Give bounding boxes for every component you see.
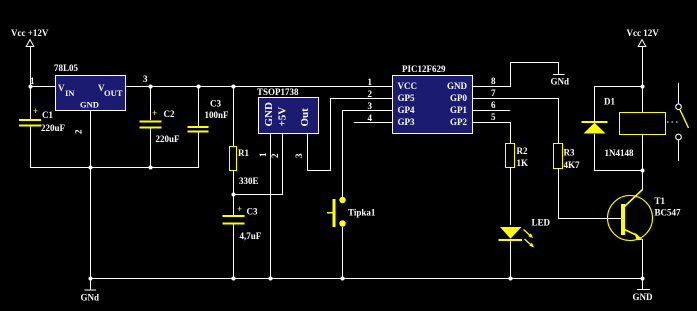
wire C2 top lead (150, 86, 151, 120)
svg-text:2: 2 (270, 153, 280, 158)
svg-text:4K7: 4K7 (564, 160, 581, 170)
capacitor C1 220uF (19, 106, 66, 133)
resistor R3 4K7 (554, 144, 581, 171)
wire relay bottom lead (642, 134, 643, 170)
svg-text:C3: C3 (247, 207, 258, 217)
svg-text:C3: C3 (210, 99, 221, 109)
power flag Vcc 12V (627, 28, 660, 47)
svg-text:VCC: VCC (398, 81, 418, 91)
svg-text:TSOP1738: TSOP1738 (257, 87, 299, 97)
wire pin8 to gnd a (472, 86, 510, 87)
svg-text:IN: IN (65, 88, 75, 98)
svg-text:+: + (33, 106, 38, 116)
svg-text:R1: R1 (238, 148, 249, 158)
wire pin5 (GP2) (472, 122, 510, 123)
relay contact (upper stub) (678, 83, 679, 104)
svg-text:BC547: BC547 (655, 208, 682, 218)
wire TSOP GND pin down to bottom rail (270, 134, 271, 278)
wire pin7 (GP0) (472, 98, 559, 99)
wire collector lead (642, 170, 643, 190)
wire D1 bottom lead (594, 134, 595, 170)
power flag Vcc +12V (11, 28, 49, 47)
junction GND pin x sub-rail (89, 166, 93, 170)
wire button top lead (342, 110, 343, 197)
svg-text:C1: C1 (42, 110, 53, 120)
wire emitter lead (642, 239, 643, 278)
wire Out horizontal (307, 170, 331, 171)
wire pin6 stub (GP1) (472, 110, 510, 111)
junction rail x GND pin (89, 277, 93, 281)
junction rail x TSOP GND (269, 277, 273, 281)
capacitor C3 4.7uF (223, 204, 262, 241)
junction rail x emitter (641, 277, 645, 281)
diode D1 1N4148 (582, 97, 634, 159)
relay contact lower circle (676, 134, 682, 140)
relay K1 coil (620, 113, 666, 135)
svg-text:1N4148: 1N4148 (605, 148, 634, 158)
svg-text:4,7uF: 4,7uF (240, 231, 262, 241)
ground GNd (top middle) (551, 74, 570, 87)
wire R1 top lead (233, 86, 234, 146)
svg-text:3: 3 (368, 101, 373, 111)
svg-text:3: 3 (143, 74, 148, 84)
wire R1 bottom lead (233, 170, 234, 215)
wire LED bottom lead (510, 241, 511, 278)
svg-text:+5V: +5V (277, 107, 289, 127)
svg-text:6: 6 (491, 100, 496, 110)
node 1 junction (29, 85, 33, 89)
LED D LED (499, 218, 551, 248)
microcontroller U PIC12F629 (393, 64, 473, 134)
wire D1 bottom horizontal (594, 170, 642, 171)
wire GP5 (pin2) (330, 98, 392, 99)
junction C2 bottom (149, 166, 153, 170)
junction C3 100nF top (197, 85, 201, 89)
svg-text:GNd: GNd (551, 77, 570, 87)
wire R2 bottom lead to LED (510, 167, 511, 225)
resistor R1 330E (230, 147, 259, 187)
capacitor C2 220uF (140, 108, 181, 144)
wire 78L05 GND pin down to bottom rail (90, 110, 91, 290)
svg-text:1: 1 (368, 77, 373, 87)
bottom ground rail (90, 278, 643, 279)
svg-text:3: 3 (294, 153, 304, 158)
wire Vcc+12V stem (30, 47, 31, 87)
wire pin8 to gnd d (558, 62, 559, 74)
wire base wire to T1 (558, 218, 621, 219)
wire +5V branch to TSOP (233, 194, 283, 195)
svg-text:T1: T1 (655, 196, 666, 206)
ground GNd (bottom left) (81, 290, 100, 303)
junction relay/D1 bottom (641, 169, 645, 173)
wire TSOP Out pin lead (307, 134, 308, 170)
svg-text:C2: C2 (164, 109, 175, 119)
svg-text:Vcc +12V: Vcc +12V (11, 28, 49, 38)
wire R2 top lead (510, 122, 511, 143)
junction rail x LED (509, 277, 513, 281)
junction +5V node at R1 bottom (232, 193, 236, 197)
wire right gnd stub (642, 278, 643, 289)
wire Vcc12V stem down to relay (642, 47, 643, 112)
wire R3 top lead (558, 98, 559, 143)
junction rail x C3 4.7uF (232, 277, 236, 281)
wire C3 100nF bottom lead (198, 132, 199, 168)
svg-text:1: 1 (258, 152, 268, 157)
IR receiver U TSOP1738 (257, 87, 319, 134)
resistor R2 1K (506, 144, 529, 169)
wire node1 down to C1 (30, 86, 31, 119)
svg-text:OUT: OUT (104, 88, 123, 98)
svg-text:+: + (237, 204, 242, 214)
relay contact (lower stub) (678, 140, 679, 161)
wire GP4 (pin3) (342, 110, 392, 111)
junction Vcc12V node (641, 85, 645, 89)
svg-text:100nF: 100nF (205, 110, 230, 120)
svg-text:GP4: GP4 (398, 105, 415, 115)
wire +5V main rail (125, 86, 392, 87)
svg-text:4: 4 (368, 113, 373, 123)
wire TSOP +5V pin lead (282, 134, 283, 195)
wire C1 bottom lead (30, 127, 31, 168)
svg-text:5: 5 (491, 112, 496, 122)
wire C3 4.7uF bottom lead (233, 224, 234, 278)
svg-text:GP5: GP5 (398, 93, 415, 103)
svg-text:GND: GND (447, 81, 468, 91)
svg-text:V: V (58, 83, 65, 93)
svg-text:78L05: 78L05 (54, 63, 79, 73)
svg-text:R2: R2 (517, 146, 528, 156)
wire pin8 to gnd c (510, 62, 558, 63)
wire GP3 stub (pin4) (354, 122, 392, 123)
junction rail x button (341, 277, 345, 281)
capacitor C3 100nF (188, 99, 230, 133)
svg-text:GND: GND (80, 100, 99, 110)
svg-text:LED: LED (532, 218, 551, 228)
svg-text:1K: 1K (517, 158, 529, 168)
relay actuation dashed link (667, 121, 678, 123)
wire R3 bottom lead (558, 168, 559, 219)
wire to D1 top (594, 86, 643, 87)
wire C2 bottom lead (150, 128, 151, 168)
svg-text:GNd: GNd (81, 293, 100, 303)
svg-text:R3: R3 (564, 148, 575, 158)
pushbutton Tipka1 (327, 197, 376, 227)
svg-text:220uF: 220uF (156, 134, 181, 144)
svg-text:2: 2 (368, 89, 373, 99)
transistor T1 BC547 (608, 190, 682, 241)
svg-text:GP2: GP2 (450, 117, 467, 127)
svg-text:GP1: GP1 (450, 105, 467, 115)
svg-text:PIC12F629: PIC12F629 (402, 64, 446, 74)
ground GND (bottom right) (633, 289, 654, 302)
wire Out up to GP5 (330, 98, 331, 171)
svg-text:Out: Out (299, 108, 311, 127)
svg-text:D1: D1 (604, 97, 615, 107)
relay contact lever (680, 110, 689, 128)
svg-text:Vcc 12V: Vcc 12V (627, 28, 660, 38)
svg-text:7: 7 (491, 88, 496, 98)
junction R1 top (232, 85, 236, 89)
wire gnd sub-rail (30, 167, 199, 168)
svg-text:1: 1 (30, 76, 35, 86)
wire pin8 to gnd b (510, 62, 511, 87)
svg-text:8: 8 (491, 76, 496, 86)
svg-text:GP0: GP0 (450, 93, 467, 103)
wire C3 100nF top lead (198, 86, 199, 126)
relay contact upper circle (676, 104, 682, 110)
wire D1 top lead (594, 86, 595, 121)
svg-text:220uF: 220uF (41, 123, 66, 133)
regulator U 78L05 (54, 63, 126, 111)
svg-text:330E: 330E (239, 176, 259, 186)
svg-text:GND: GND (633, 292, 654, 302)
svg-text:Tipka1: Tipka1 (348, 208, 376, 218)
junction C2 top (149, 85, 153, 89)
svg-text:2: 2 (74, 129, 84, 134)
svg-text:+: + (152, 108, 157, 118)
svg-text:GP3: GP3 (398, 117, 415, 127)
wire node1 to 78L05 VIN (30, 86, 55, 87)
wire button bottom lead (342, 227, 343, 278)
svg-text:GND: GND (263, 102, 275, 127)
